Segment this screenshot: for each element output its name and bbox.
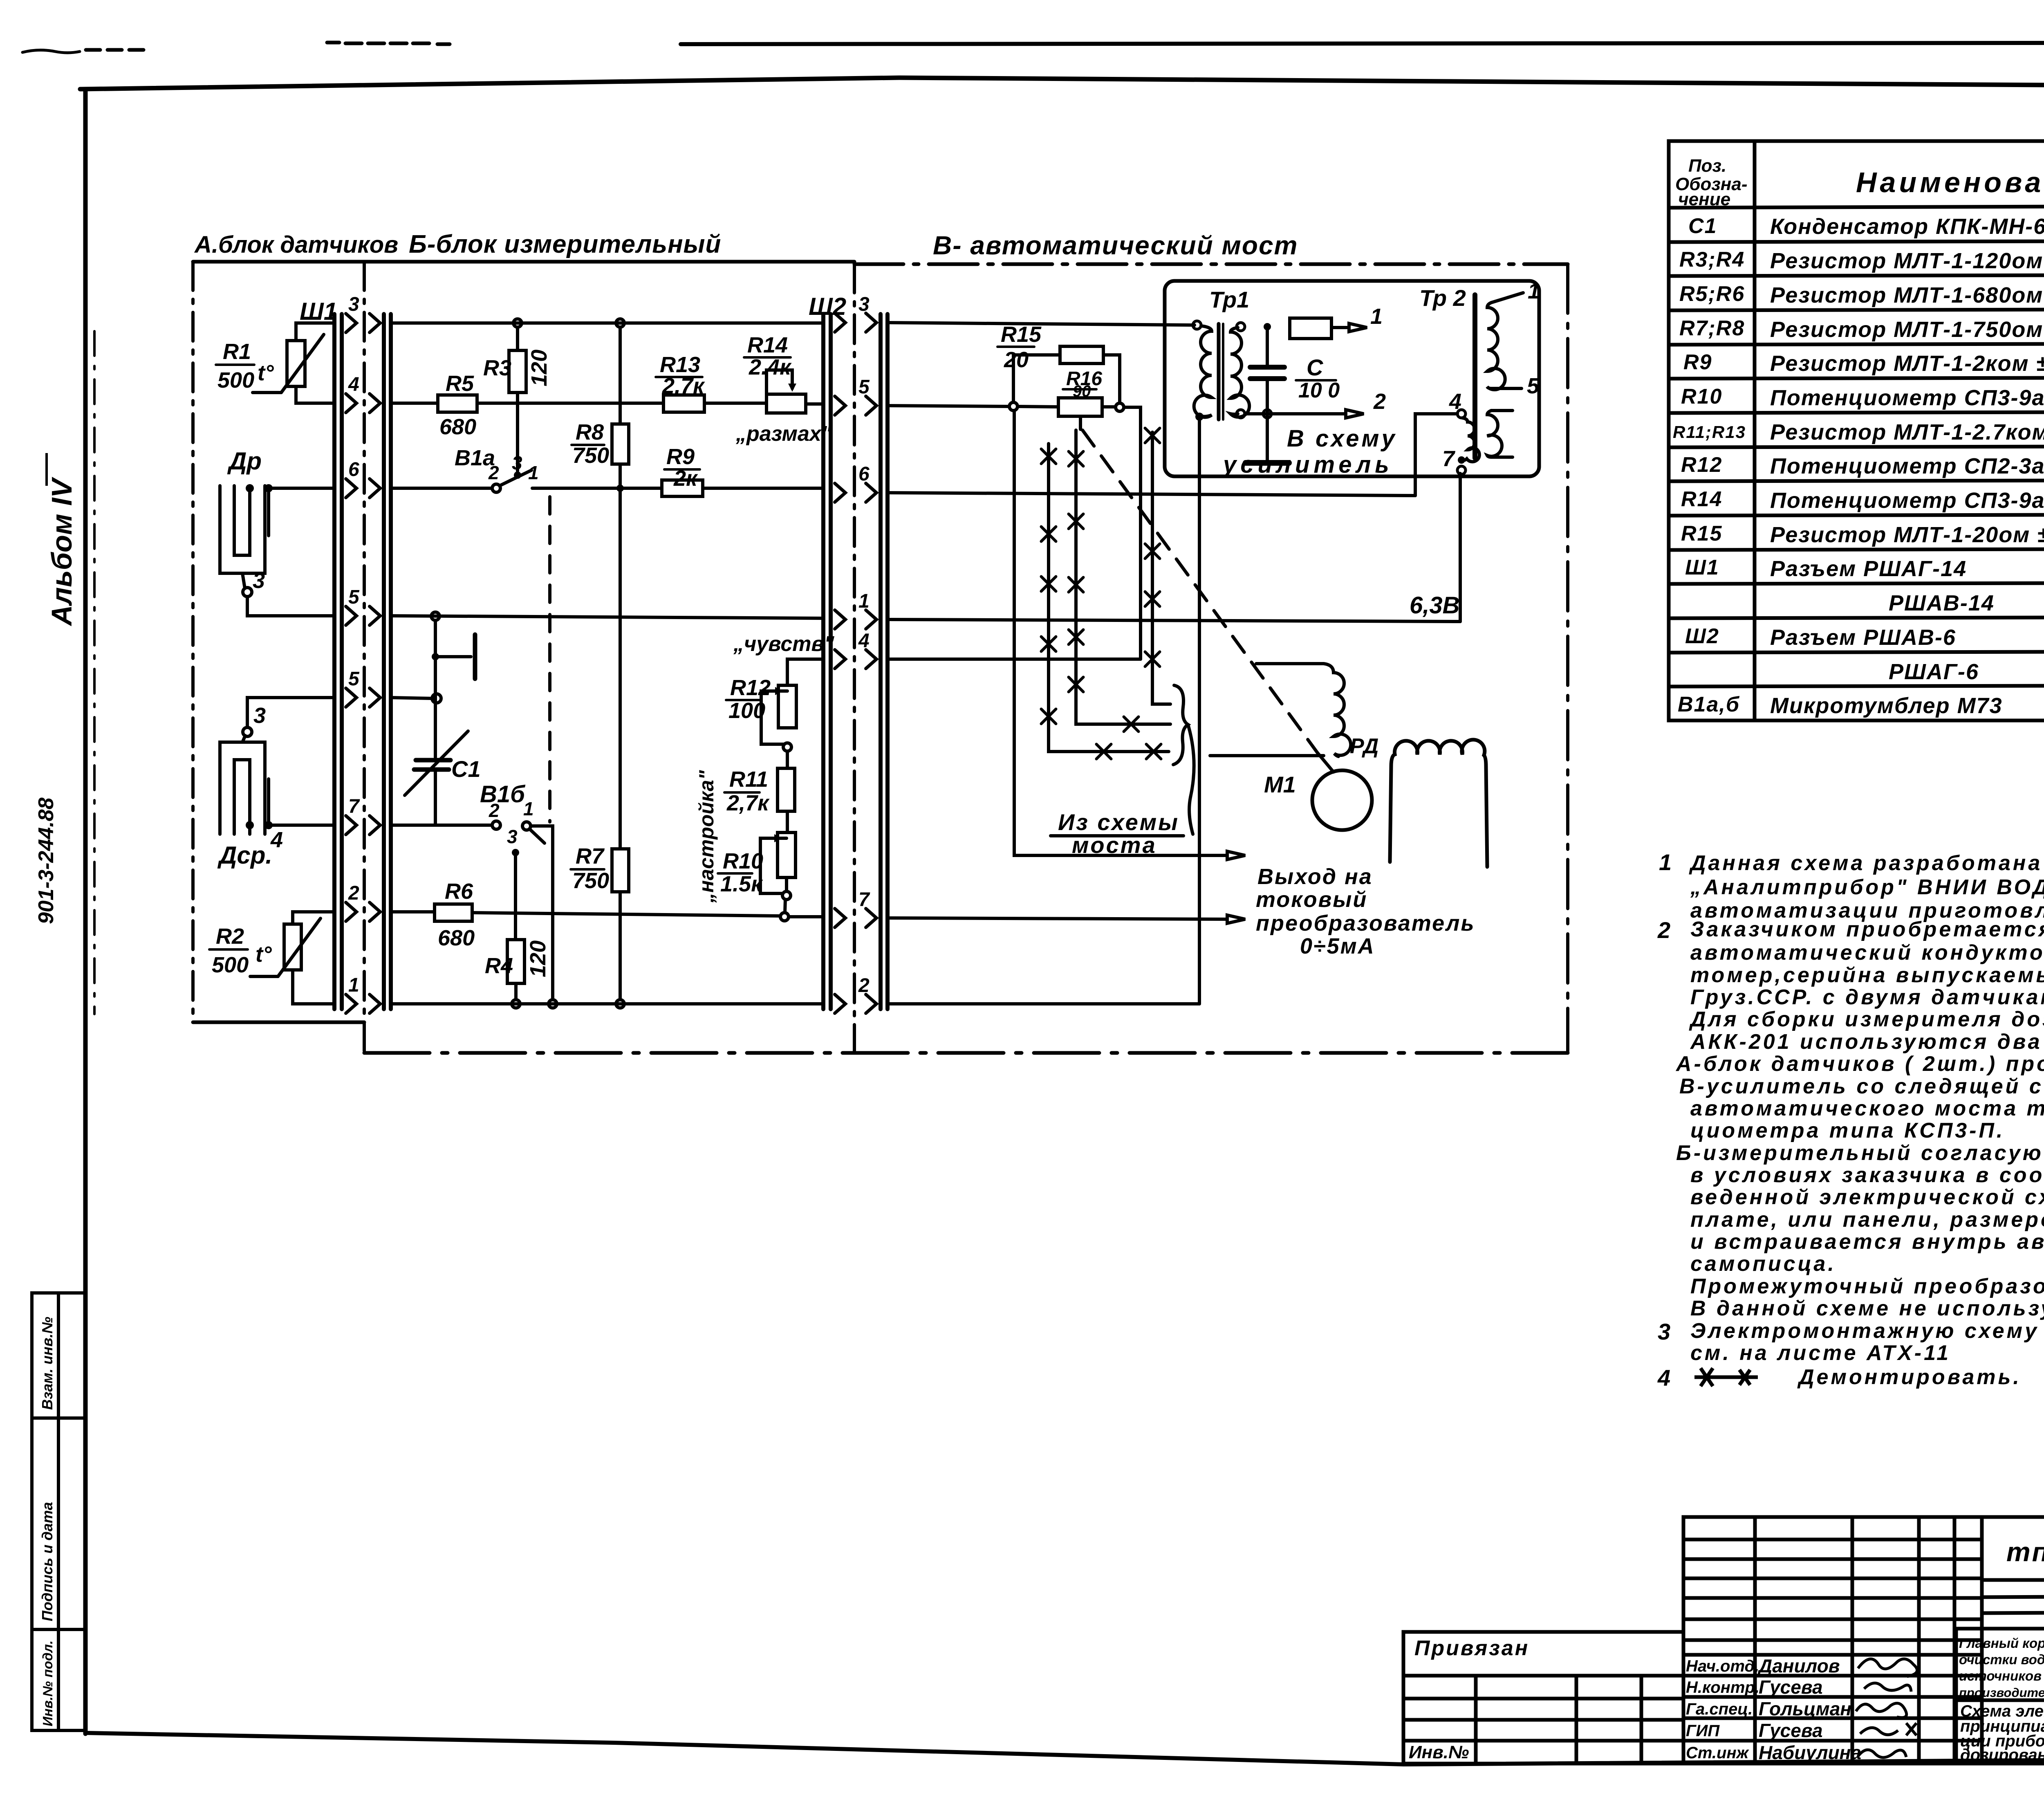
- LEFT MARGIN STRIP: [32, 1293, 85, 1730]
- svg-text:Резистор МЛТ-1-680ом ±5%: Резистор МЛТ-1-680ом ±5%: [1770, 283, 2044, 307]
- svg-text:4: 4: [1449, 389, 1461, 414]
- svg-text:R9: R9: [666, 444, 695, 469]
- R2 diagonal: [278, 918, 320, 976]
- svg-text:ГИП: ГИП: [1686, 1722, 1720, 1740]
- bottom border block A: [193, 1021, 364, 1024]
- svg-text:„чувств": „чувств": [733, 632, 835, 656]
- resistor R6: [435, 904, 472, 921]
- svg-text:циометра типа КСП3-П.: циометра типа КСП3-П.: [1690, 1119, 2005, 1142]
- svg-text:1: 1: [348, 974, 359, 996]
- svg-text:Ш2: Ш2: [809, 293, 846, 320]
- svg-text:Н.контр.: Н.контр.: [1686, 1679, 1759, 1697]
- R15 bracket right: [1103, 355, 1120, 403]
- svg-text:очистки воды поверхностных: очистки воды поверхностных: [1959, 1652, 2044, 1667]
- table grid: [1669, 141, 2044, 720]
- signatures: [1856, 1659, 1917, 1757]
- table rows text: [1673, 214, 2044, 718]
- row 5b wire: [391, 698, 432, 698]
- svg-text:7: 7: [858, 889, 870, 911]
- switch V1b blade: [530, 829, 545, 843]
- resistor R8: [612, 424, 629, 464]
- svg-text:R11;R13: R11;R13: [1673, 422, 1746, 442]
- svg-text:Данилов: Данилов: [1757, 1655, 1840, 1676]
- node R8 bottom row6: [616, 485, 624, 492]
- connector Sh2: [823, 314, 888, 1009]
- stator winding: [1390, 740, 1487, 867]
- R12 wiper bracket: [761, 691, 787, 744]
- R1 diagonal: [281, 334, 324, 393]
- svg-text:R3;R4: R3;R4: [1679, 248, 1745, 272]
- svg-text:5: 5: [858, 376, 870, 398]
- svg-text:веденной электрической схемой,: веденной электрической схемой, на отдель…: [1690, 1185, 2044, 1209]
- resistor R13: [663, 395, 704, 412]
- svg-text:Потенциометр СП2-3а-100ом ±2%: Потенциометр СП2-3а-100ом ±2%: [1770, 454, 2044, 478]
- row 1 wire: [888, 619, 1460, 622]
- connector Sh1 arrows: [346, 314, 380, 1013]
- svg-text:Электромонтажную схему блока и: Электромонтажную схему блока измерительн…: [1690, 1319, 2044, 1343]
- svg-text:R5: R5: [446, 371, 474, 396]
- svg-text:В1б: В1б: [480, 781, 526, 808]
- svg-text:100: 100: [728, 698, 765, 723]
- wire R3 top: [516, 327, 519, 350]
- svg-text:R6: R6: [445, 879, 473, 904]
- row 2 wire: [888, 1002, 1199, 1005]
- node R15/R16 right: [1116, 403, 1124, 411]
- svg-text:С1: С1: [1688, 214, 1717, 238]
- mechanical link reochord-motor (dashed): [1083, 430, 1317, 752]
- switch V1b contact 2: [492, 821, 500, 829]
- svg-text:6: 6: [348, 459, 359, 480]
- svg-text:t°: t°: [255, 942, 272, 967]
- svg-text:М1: М1: [1264, 772, 1296, 797]
- svg-text:0÷5мА: 0÷5мА: [1300, 934, 1375, 958]
- svg-text:моста: моста: [1072, 832, 1157, 858]
- svg-text:Гусева: Гусева: [1759, 1720, 1823, 1741]
- svg-text:750: 750: [572, 443, 609, 468]
- resistor R4: [507, 940, 524, 983]
- node R10 bottom: [780, 913, 789, 921]
- svg-text:4: 4: [348, 374, 359, 395]
- sensor Dr node 3 terminal: [243, 588, 252, 597]
- brace tail squiggle: [1188, 725, 1194, 834]
- capacitor C1 plates: [416, 758, 450, 763]
- resistor R5: [438, 395, 477, 412]
- motor M1: [1312, 770, 1372, 830]
- svg-text:в условиях заказчика в соответ: в условиях заказчика в соответствии с пр…: [1690, 1163, 2044, 1187]
- wire Dr to pin6: [269, 487, 334, 490]
- svg-text:3: 3: [1658, 1319, 1673, 1344]
- svg-text:750: 750: [572, 868, 609, 893]
- svg-text:R10: R10: [723, 849, 763, 873]
- svg-text:В1а,б: В1а,б: [1678, 693, 1740, 716]
- wire R3 bottom to switch: [516, 393, 519, 471]
- svg-text:10 0: 10 0: [1298, 379, 1340, 402]
- connector Sh2 arrows: [835, 313, 876, 1013]
- Tr1 core: [1217, 324, 1221, 420]
- title block texts: [1409, 1533, 2044, 1764]
- svg-text:R12: R12: [1681, 453, 1722, 477]
- svg-text:В-усилитель со следящей систем: В-усилитель со следящей системой (реохор…: [1679, 1075, 2044, 1098]
- svg-text:2: 2: [348, 882, 359, 904]
- potentiometer R12: [778, 685, 796, 728]
- wire R1 bottom to pin4: [296, 386, 334, 403]
- fold mark dash-dot left: [93, 331, 96, 1014]
- open terminal on C1 branch: [432, 694, 441, 703]
- row 6 wire to switch V1a: [391, 487, 492, 490]
- svg-text:Потенциометр СП3-9а-1.5ком ±2%: Потенциометр СП3-9а-1.5ком ±2%: [1770, 386, 2044, 410]
- sensor Dsr electrodes: [220, 742, 265, 834]
- svg-text:Б-блок измерительный: Б-блок измерительный: [409, 230, 721, 258]
- node R7 bottom: [616, 1000, 624, 1008]
- svg-text:Резистор МЛТ-1-2ком ±5%: Резистор МЛТ-1-2ком ±5%: [1770, 351, 2044, 376]
- svg-text:Подпись и дата: Подпись и дата: [39, 1502, 56, 1621]
- node C1 top: [431, 612, 439, 620]
- svg-text:Резистор МЛТ-1-2.7ком ±2%: Резистор МЛТ-1-2.7ком ±2%: [1770, 420, 2044, 444]
- svg-text:РД: РД: [1350, 734, 1378, 758]
- capacitor C wire: [1266, 327, 1269, 367]
- left border block A (dash-dot): [191, 262, 195, 1022]
- svg-text:R10: R10: [1681, 385, 1722, 408]
- svg-text:R1: R1: [223, 339, 251, 364]
- middle signature grid: [1683, 1517, 1982, 1764]
- ground bar: [1246, 460, 1289, 466]
- top-left stray dashes: [22, 50, 80, 53]
- connector Sh2 pin numbers: [858, 294, 870, 996]
- riser to Tr2 pin7: [1459, 474, 1462, 622]
- svg-text:Промежуточный преобразователь: Промежуточный преобразователь прибора АК…: [1690, 1275, 2044, 1298]
- project name box: [1956, 1629, 2044, 1764]
- svg-text:R7;R8: R7;R8: [1679, 316, 1745, 340]
- svg-text:производительностью 12.5тыс м3: производительностью 12.5тыс м3/сут.: [1959, 1685, 2044, 1700]
- svg-text:1: 1: [528, 462, 539, 483]
- svg-text:Конденсатор КПК-МН-6/25: Конденсатор КПК-МН-6/25: [1770, 214, 2044, 239]
- svg-text:С: С: [1307, 355, 1324, 380]
- reochord RD: [1210, 664, 1351, 756]
- switch V1a blade: [501, 470, 531, 485]
- svg-text:РШАВ-14: РШАВ-14: [1889, 591, 1995, 615]
- shield stub: [435, 655, 471, 658]
- bottom border blocks B+V (dash-dot): [364, 1051, 1568, 1055]
- svg-text:Гусева: Гусева: [1759, 1676, 1823, 1698]
- svg-text:R8: R8: [576, 420, 604, 444]
- row 7 output wire: [888, 918, 1227, 919]
- riser to Tr2 pin4: [1415, 414, 1457, 496]
- svg-text:Главный корпус для станции и: Главный корпус для станции и: [1959, 1636, 2044, 1651]
- connector Sh1 pin numbers: [348, 294, 360, 996]
- svg-text:901-3-244.88: 901-3-244.88: [34, 798, 58, 924]
- wire R12 top to row4V: [787, 659, 823, 685]
- block A labels: [212, 339, 283, 977]
- svg-text:„Аналитприбор" ВНИИ ВОДГЕО дл: „Аналитприбор" ВНИИ ВОДГЕО для: [1690, 875, 2044, 899]
- svg-text:источников мутностью до 1500мг: источников мутностью до 1500мг/л: [1959, 1668, 2044, 1683]
- svg-text:680: 680: [439, 415, 476, 439]
- svg-text:Разъем РШАГ-14: Разъем РШАГ-14: [1770, 557, 1967, 581]
- switch V1b contact 1: [522, 822, 531, 830]
- svg-text:6,3В: 6,3В: [1410, 592, 1460, 619]
- wire V1b common to R4: [514, 853, 517, 940]
- svg-text:В- автоматический мост: В- автоматический мост: [933, 231, 1298, 260]
- svg-text:Привязан: Привязан: [1414, 1636, 1529, 1660]
- svg-text:500: 500: [212, 953, 249, 977]
- resistor R11: [778, 768, 795, 811]
- demount X marks: [1041, 428, 1161, 759]
- fraction lines of labels: [571, 357, 791, 873]
- Tr2 pin1 wire: [1491, 293, 1523, 303]
- svg-text:Дср.: Дср.: [217, 842, 272, 869]
- svg-text:Взам. инв.№: Взам. инв.№: [39, 1317, 56, 1410]
- frame top border: [80, 78, 2044, 89]
- svg-text:Данная схема разработана НПО: Данная схема разработана НПО: [1689, 851, 2044, 875]
- svg-text:3: 3: [253, 703, 266, 728]
- capacitor C1 branch vertical: [434, 620, 437, 757]
- row 6 wire: [888, 493, 1415, 496]
- Tr2 winding lower right: [1487, 411, 1502, 457]
- svg-text:Ш2: Ш2: [1685, 624, 1719, 648]
- switch V1a common dot: [514, 471, 521, 479]
- svg-text:2: 2: [858, 975, 870, 996]
- svg-text:3: 3: [253, 568, 265, 593]
- svg-text:Инв.№ подл.: Инв.№ подл.: [40, 1640, 55, 1726]
- svg-text:4: 4: [858, 630, 870, 652]
- resistor R1 (thermo): [287, 341, 305, 386]
- svg-text:7: 7: [1442, 447, 1456, 471]
- svg-text:„настройка": „настройка": [695, 770, 718, 903]
- sensor Dsr node 3 terminal: [243, 727, 252, 736]
- svg-text:Набиулина: Набиулина: [1759, 1742, 1861, 1763]
- R15 parallel bracket left: [1013, 355, 1060, 402]
- svg-text:Нач.отд.: Нач.отд.: [1686, 1657, 1759, 1675]
- sensor Dr electrodes: [220, 486, 265, 573]
- svg-text:R12: R12: [730, 675, 771, 700]
- wire R2 bottom to pin1: [293, 970, 334, 1004]
- svg-text:1.5к: 1.5к: [720, 872, 763, 896]
- node R15/R16 left: [1009, 402, 1018, 411]
- svg-text:и встраивается внутрь автомати: и встраивается внутрь автоматического: [1690, 1230, 2044, 1254]
- svg-text:усилитель: усилитель: [1222, 451, 1393, 478]
- svg-text:R4: R4: [485, 954, 513, 978]
- resistor R9: [662, 480, 703, 496]
- svg-text:5: 5: [348, 586, 360, 608]
- block borders: [94, 262, 1568, 1053]
- resistor R7: [612, 849, 629, 892]
- svg-text:2: 2: [489, 800, 500, 821]
- note 4 demount symbol: [1694, 1368, 1758, 1386]
- svg-text:R15: R15: [1001, 322, 1042, 347]
- bottom bus row 1: [391, 1002, 823, 1005]
- svg-text:Ш1: Ш1: [1685, 556, 1719, 579]
- svg-text:R7: R7: [576, 844, 605, 868]
- svg-text:В данной схеме не используется: В данной схеме не используется.: [1690, 1297, 2044, 1320]
- svg-text:1: 1: [1659, 849, 1674, 875]
- svg-text:АКК-201 используются два блока: АКК-201 используются два блока:: [1690, 1030, 2044, 1054]
- Tr2 secondary 1-5: [1487, 303, 1505, 390]
- wire sec top to resistor: [1245, 326, 1290, 327]
- svg-text:А.блок датчиков: А.блок датчиков: [194, 231, 398, 258]
- svg-text:Из схемы: Из схемы: [1058, 809, 1179, 835]
- svg-text:3: 3: [858, 294, 870, 315]
- svg-text:РШАГ-6: РШАГ-6: [1889, 660, 1979, 684]
- potentiometer R10: [778, 833, 796, 877]
- C1 bottom wire to row7: [434, 770, 437, 825]
- capacitor C plates: [1250, 365, 1284, 370]
- svg-text:см. на листе АТХ-11: см. на листе АТХ-11: [1690, 1341, 1951, 1365]
- arrow out 1: [1349, 323, 1367, 332]
- svg-text:2: 2: [488, 462, 499, 483]
- connector Sh1: [334, 314, 391, 1009]
- svg-text:120: 120: [526, 940, 550, 977]
- output arrow 2: [1227, 915, 1245, 923]
- svg-text:7: 7: [348, 796, 360, 817]
- svg-text:6: 6: [858, 463, 870, 485]
- output arrow 1: [1227, 851, 1245, 859]
- svg-text:Резистор МЛТ-1-120ом ±5%: Резистор МЛТ-1-120ом ±5%: [1770, 249, 2044, 273]
- svg-text:90: 90: [1073, 382, 1091, 400]
- gathering brace: [1173, 685, 1188, 765]
- wire sec bottom arrow 2: [1245, 412, 1346, 415]
- row 3 bus: [391, 321, 823, 325]
- top border blocks A+B: [193, 260, 854, 264]
- row 4 wire: [391, 402, 438, 405]
- svg-text:500: 500: [217, 368, 254, 393]
- svg-text:R5;R6: R5;R6: [1679, 282, 1745, 306]
- svg-text:Га.спец.: Га.спец.: [1686, 1700, 1753, 1718]
- svg-text:Ш1: Ш1: [300, 298, 337, 325]
- R16 wiper stub: [1079, 416, 1082, 429]
- wire Dsr node3 to pin5b: [247, 698, 334, 727]
- svg-text:Заказчиком приобретается прибо: Заказчиком приобретается прибор типа АКК…: [1690, 918, 2044, 941]
- svg-text:1: 1: [1528, 279, 1540, 303]
- svg-text:R9: R9: [1683, 350, 1712, 374]
- svg-text:Тр 2: Тр 2: [1419, 285, 1466, 311]
- svg-text:дозирования коагулянта: дозирования коагулянта: [1960, 1746, 2044, 1764]
- bridge output riser: [1014, 411, 1227, 855]
- svg-text:3: 3: [348, 294, 359, 315]
- svg-text:А-блок датчиков ( 2шт.) проточ: А-блок датчиков ( 2шт.) проточного типа …: [1675, 1052, 2044, 1076]
- row 7 wire: [391, 824, 492, 827]
- node R10 bottom terminal: [782, 891, 791, 900]
- svg-text:3: 3: [512, 452, 522, 474]
- wire R2 top to pin2: [293, 912, 334, 924]
- svg-text:Груз.ССР. с двумя датчиками с: Груз.ССР. с двумя датчиками с постоянной…: [1690, 985, 2044, 1009]
- svg-text:120: 120: [527, 350, 551, 386]
- svg-text:R11: R11: [729, 767, 768, 792]
- node on row3: [513, 319, 522, 327]
- svg-text:680: 680: [438, 926, 475, 950]
- svg-text:автоматический кондуктометриче: автоматический кондуктометрический конце…: [1690, 941, 2044, 965]
- svg-text:Наименование: Наименование: [1856, 166, 2044, 198]
- svg-text:Разъем РШАВ-6: Разъем РШАВ-6: [1770, 625, 1956, 650]
- Tr2 pins: [1457, 410, 1466, 418]
- demount wire 2: [1076, 430, 1170, 724]
- boundary B/V (dash-dot): [853, 264, 856, 1053]
- svg-text:1: 1: [1370, 304, 1383, 329]
- R8 vertical wires: [619, 327, 622, 424]
- filter resistor: [1290, 318, 1331, 339]
- svg-text:R3: R3: [483, 356, 511, 380]
- R14 wiper bracket: [766, 370, 792, 395]
- svg-text:В схему: В схему: [1287, 425, 1397, 452]
- svg-text:Выход на: Выход на: [1257, 864, 1373, 889]
- svg-text:5: 5: [1527, 374, 1540, 398]
- switch V1b common dot: [512, 849, 519, 856]
- Tr2 heater winding left: [1462, 418, 1479, 462]
- table header text: [1675, 156, 2044, 209]
- R10 wiper bracket: [760, 838, 787, 893]
- switch V1a contact 2: [492, 484, 500, 492]
- row 3 wire to Tr1: [888, 323, 1195, 325]
- right: doc number box: [1982, 1517, 2044, 1580]
- svg-text:самописца.: самописца.: [1690, 1252, 1836, 1276]
- svg-text:тп 901-3-244.88: тп 901-3-244.88: [2006, 1537, 2044, 1567]
- svg-text:Резистор МЛТ-1-750ом ±5%: Резистор МЛТ-1-750ом ±5%: [1770, 317, 2044, 342]
- svg-text:преобразователь: преобразователь: [1256, 911, 1475, 936]
- node R8 top on row3: [616, 319, 624, 327]
- Tr1 primary winding: [1194, 326, 1212, 417]
- resistor R2 (thermo): [284, 924, 301, 970]
- resistor R3: [509, 350, 526, 393]
- C1 trimmer arrow: [405, 731, 468, 795]
- svg-text:2,7к: 2,7к: [726, 791, 770, 815]
- svg-text:20: 20: [1004, 348, 1029, 372]
- wire R1 top to pin3: [296, 323, 334, 341]
- left: privyazan cell and grid: [1403, 1632, 1683, 1764]
- resistor R15: [1060, 346, 1103, 364]
- Tr1 pins: [1193, 321, 1201, 329]
- row 5 bus: [391, 616, 823, 618]
- svg-text:R14: R14: [1681, 487, 1722, 511]
- wire to row4V riser: [1124, 407, 1141, 659]
- row 4V wire: [888, 658, 1141, 661]
- output labels: [1256, 864, 1475, 958]
- svg-text:„размах": „размах": [735, 422, 832, 446]
- svg-text:Гольцман: Гольцман: [1759, 1698, 1851, 1719]
- svg-text:чение: чение: [1678, 189, 1730, 209]
- riser Tr1 bottom: [1198, 420, 1201, 1004]
- mechanical link V1a-V1b (dashed): [548, 497, 551, 822]
- svg-text:4: 4: [1657, 1365, 1673, 1391]
- wire V1b contact1 to bottom bus: [531, 826, 553, 1000]
- svg-text:R14: R14: [747, 333, 788, 357]
- row 2 wire: [391, 910, 435, 913]
- svg-text:Б-измерительный согласующий бл: Б-измерительный согласующий блок, собира…: [1676, 1141, 2044, 1165]
- svg-text:Альбом IV: Альбом IV: [46, 477, 78, 626]
- svg-text:3: 3: [507, 826, 518, 847]
- svg-text:Тр1: Тр1: [1209, 287, 1249, 312]
- svg-text:Резистор МЛТ-1-20ом ±1%: Резистор МЛТ-1-20ом ±1%: [1770, 523, 2044, 547]
- frame left border: [83, 89, 88, 1734]
- demount wire 1: [1049, 444, 1169, 752]
- svg-text:плате, или панели, размером не: плате, или панели, размером не более мм:…: [1690, 1208, 2044, 1232]
- Tr2 pin5 wire: [1491, 387, 1522, 390]
- sensor junction dots: [246, 484, 273, 829]
- svg-text:2: 2: [1373, 389, 1386, 414]
- svg-text:Микротумблер М73: Микротумблер М73: [1770, 693, 2003, 718]
- svg-text:Демонтировать.: Демонтировать.: [1797, 1365, 2022, 1389]
- node R12 bottom: [783, 743, 791, 751]
- svg-text:Потенциометр СП3-9а-2.4ком.±2%: Потенциометр СП3-9а-2.4ком.±2%: [1770, 488, 2044, 513]
- potentiometer R14: [766, 394, 806, 413]
- frame bottom border: [85, 1733, 2044, 1764]
- block B labels: [438, 333, 835, 978]
- svg-text:Ст.инж: Ст.инж: [1686, 1744, 1750, 1762]
- wire Dsr to pin7: [269, 824, 334, 827]
- svg-text:С1: С1: [451, 756, 481, 782]
- svg-text:1: 1: [858, 590, 870, 612]
- boundary A/B (dash-dot): [363, 262, 366, 1053]
- svg-text:Инв.№: Инв.№: [1409, 1742, 1469, 1762]
- svg-text:R13: R13: [660, 352, 700, 377]
- Tr1 secondary winding: [1230, 328, 1249, 417]
